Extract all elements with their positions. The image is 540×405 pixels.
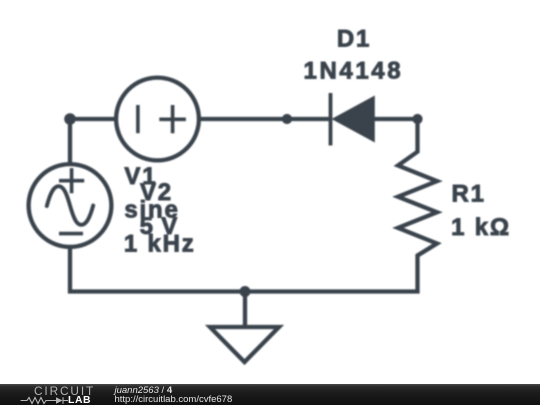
voltage source V2 circle <box>29 164 112 247</box>
svg-text:R1: R1 <box>452 181 486 208</box>
V2 plus sign <box>59 168 84 193</box>
V2 minus bar <box>59 232 83 236</box>
voltage source V1 circle <box>116 78 199 161</box>
logo diode <box>56 397 63 404</box>
svg-text:1 kHz: 1 kHz <box>124 231 196 258</box>
username line <box>115 386 173 396</box>
diode D1 triangle <box>332 96 375 143</box>
V2 sine wave <box>47 186 93 225</box>
svg-text:1 kΩ: 1 kΩ <box>451 214 511 241</box>
url line <box>115 395 233 405</box>
footer bar <box>0 384 540 405</box>
svg-text:D1: D1 <box>337 26 371 53</box>
logo resistor squiggle <box>21 398 56 404</box>
node B junction dot <box>282 114 292 124</box>
node C junction dot <box>412 114 422 124</box>
wire: diode anode to node C <box>374 117 418 121</box>
ground node junction dot <box>240 286 251 297</box>
wire top: node A to diode cathode <box>70 117 332 121</box>
diode D1 cathode bar <box>329 93 333 146</box>
node A junction dot <box>64 113 76 125</box>
logo LAB <box>68 396 91 405</box>
ground <box>210 327 279 362</box>
svg-text:1N4148: 1N4148 <box>304 57 404 84</box>
CircuitLab logo <box>34 387 95 397</box>
V1 plus sign <box>159 105 186 133</box>
ground wire stub <box>243 292 247 328</box>
V1 minus bar <box>136 105 140 133</box>
wire: left/bottom/right loop with resistor body <box>70 119 437 292</box>
